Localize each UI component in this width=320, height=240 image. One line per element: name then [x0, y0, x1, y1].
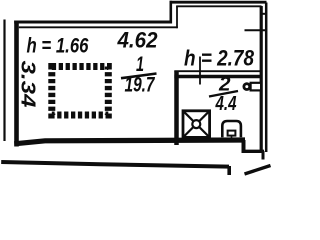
svg-text:h = 2.78: h = 2.78	[184, 46, 255, 71]
svg-text:3.34: 3.34	[17, 61, 39, 108]
svg-text:h = 1.66: h = 1.66	[27, 35, 89, 58]
svg-text:4.4: 4.4	[215, 93, 237, 115]
svg-text:19.7: 19.7	[125, 74, 156, 97]
svg-text:4.62: 4.62	[117, 28, 159, 53]
